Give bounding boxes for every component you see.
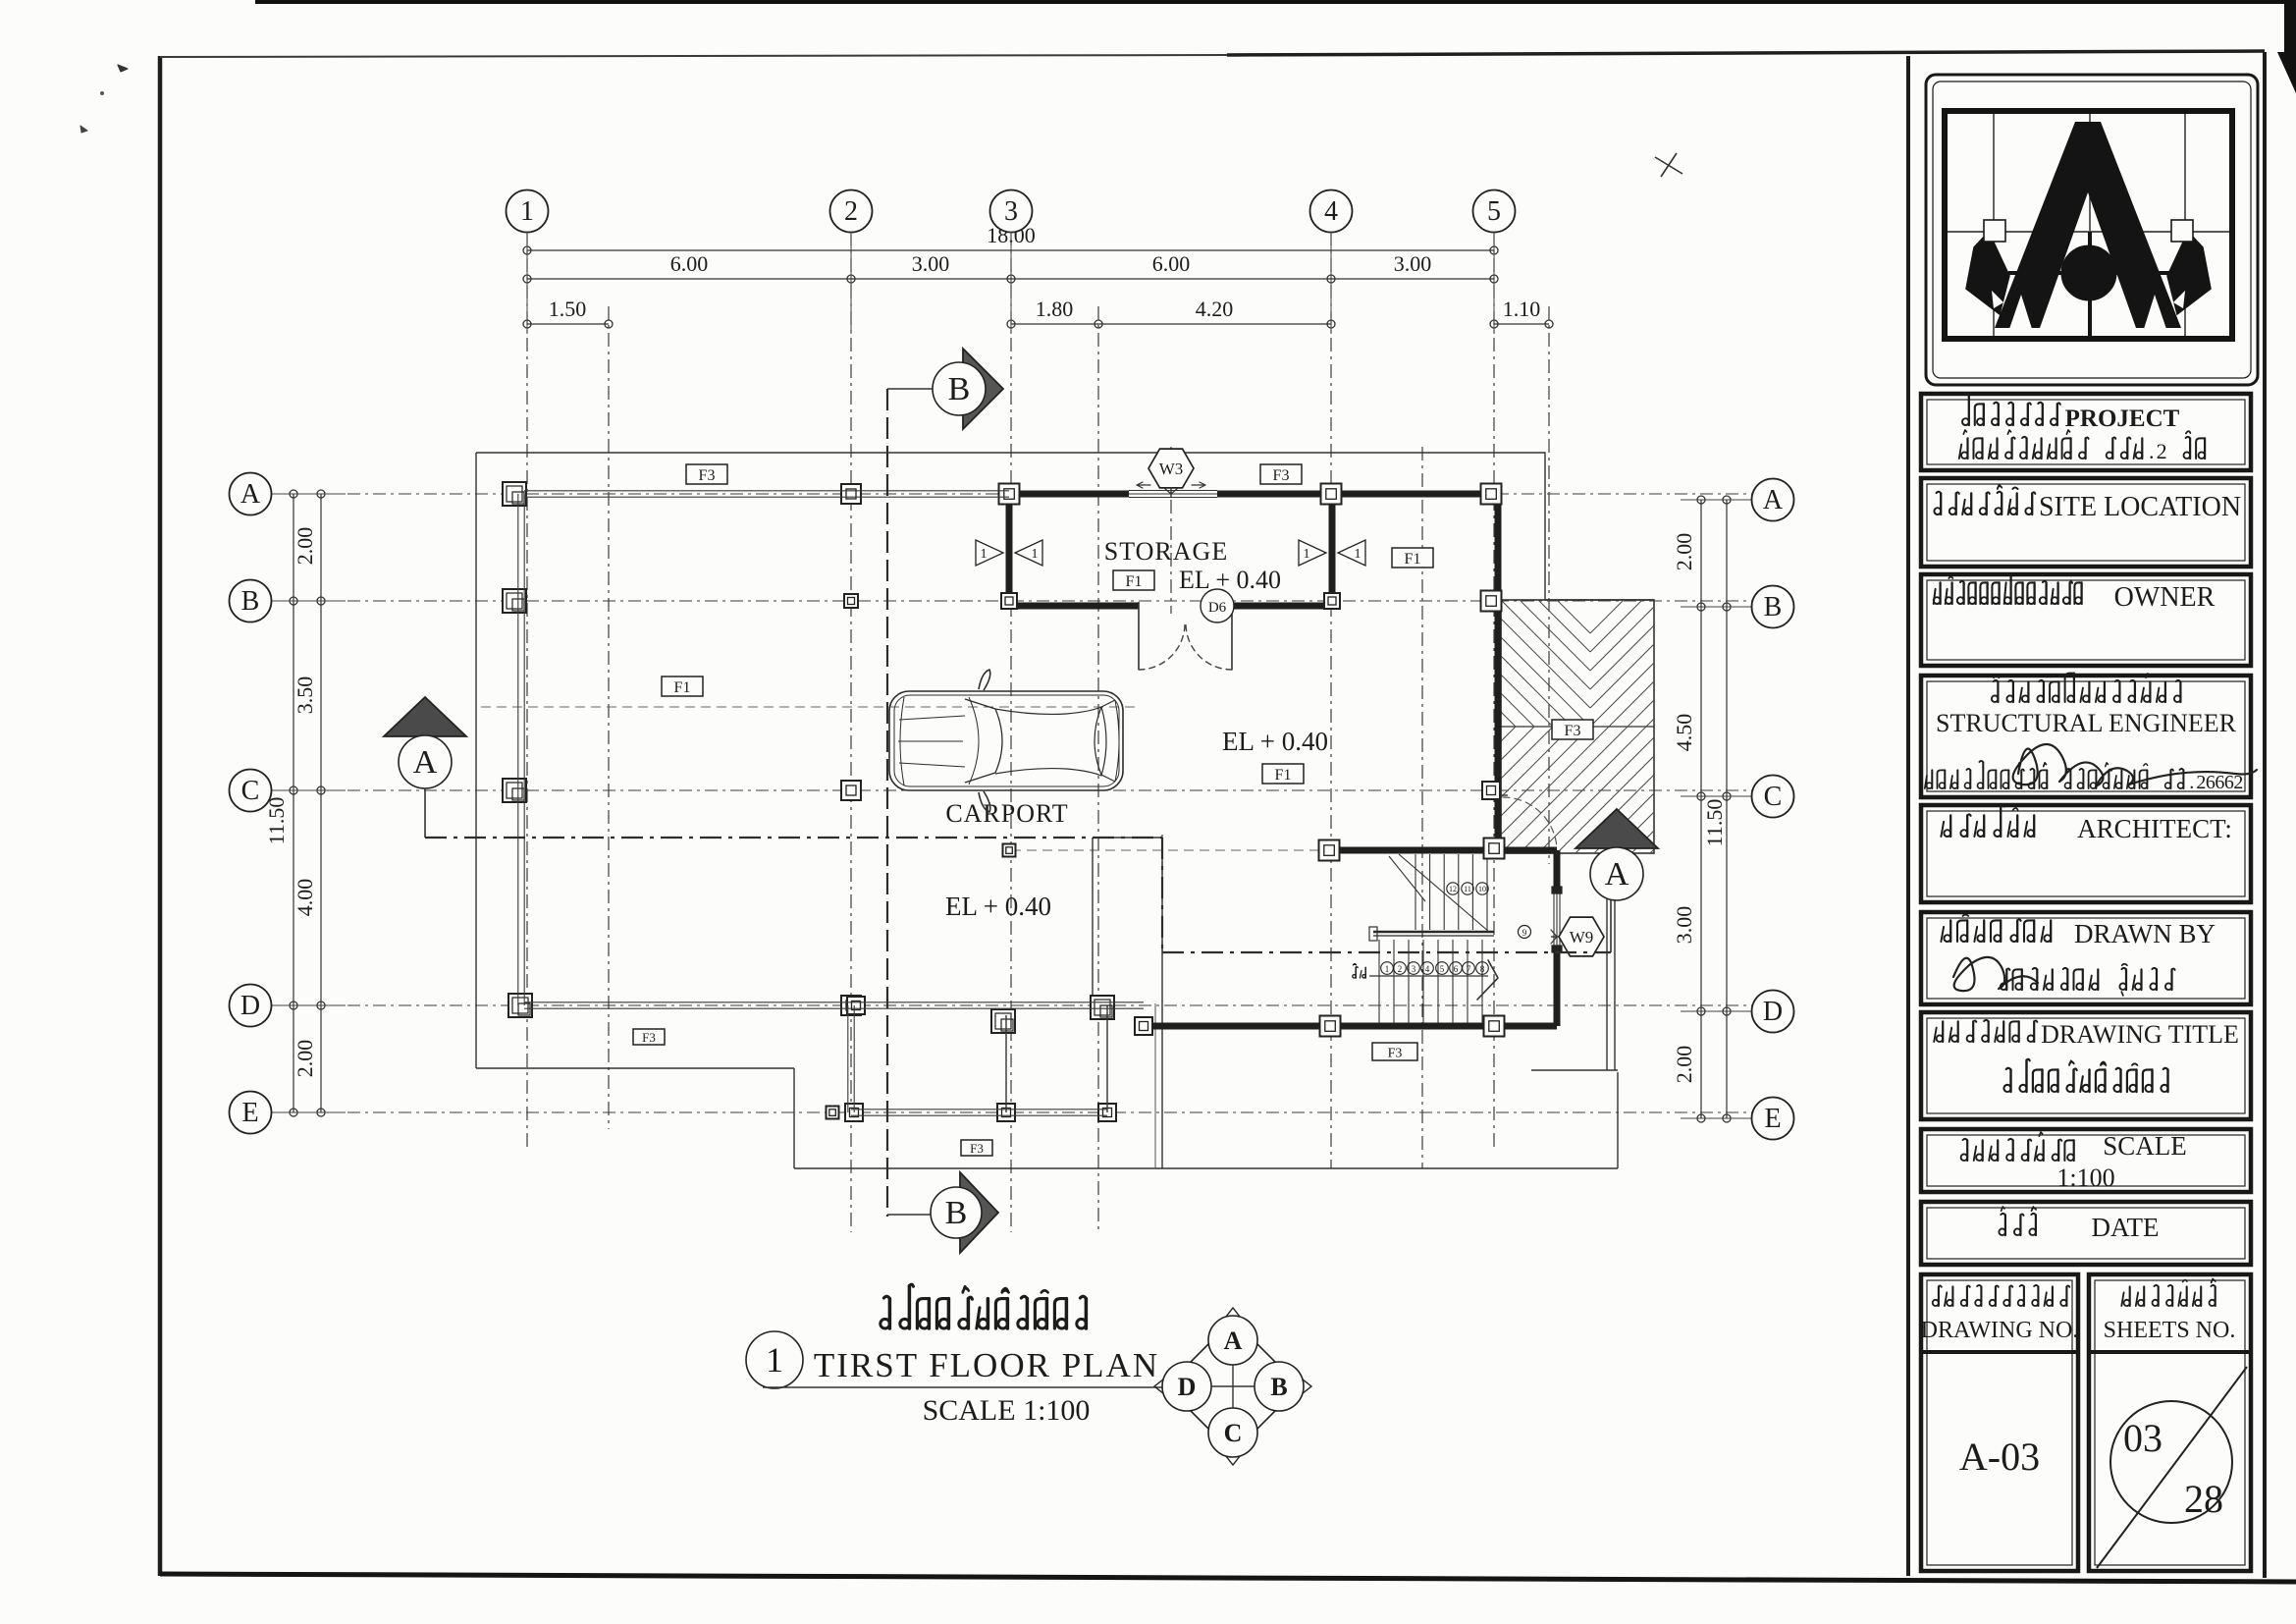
svg-text:E: E — [241, 1098, 258, 1128]
svg-text:D6: D6 — [1208, 600, 1227, 616]
svg-text:SITE LOCATION: SITE LOCATION — [2039, 492, 2241, 522]
svg-text:6: 6 — [2224, 772, 2234, 793]
svg-text:2: 2 — [1398, 964, 1403, 974]
svg-text:5: 5 — [1440, 964, 1445, 974]
svg-text:B: B — [945, 1195, 968, 1231]
svg-text:2: 2 — [844, 196, 858, 227]
svg-text:B: B — [948, 371, 971, 407]
svg-text:D: D — [1763, 997, 1783, 1027]
svg-text:STRUCTURAL ENGINEER: STRUCTURAL ENGINEER — [1936, 709, 2237, 737]
svg-text:A: A — [413, 744, 438, 781]
svg-text:F1: F1 — [674, 679, 691, 696]
svg-text:3.50: 3.50 — [293, 677, 317, 715]
svg-text:DRAWING NO.: DRAWING NO. — [1921, 1318, 2079, 1343]
svg-text:A: A — [1224, 1326, 1243, 1355]
svg-text:D: D — [240, 991, 260, 1021]
svg-text:4.20: 4.20 — [1196, 297, 1234, 321]
svg-text:1: 1 — [766, 1340, 783, 1380]
svg-text:OWNER: OWNER — [2114, 582, 2216, 613]
svg-text:4.50: 4.50 — [1672, 714, 1696, 752]
svg-text:SHEETS NO.: SHEETS NO. — [2104, 1318, 2236, 1343]
svg-text:2.00: 2.00 — [1672, 533, 1696, 571]
svg-text:EL + 0.40: EL + 0.40 — [1222, 727, 1328, 756]
svg-text:2: 2 — [2157, 439, 2167, 463]
svg-text:4: 4 — [1425, 964, 1430, 974]
svg-text:12: 12 — [1449, 885, 1457, 893]
svg-text:EL + 0.40: EL + 0.40 — [1179, 566, 1281, 594]
svg-text:3.00: 3.00 — [1394, 251, 1432, 276]
svg-text:C: C — [1764, 782, 1783, 812]
svg-text:.: . — [2189, 772, 2194, 793]
svg-text:A: A — [1763, 485, 1784, 515]
svg-text:1: 1 — [1304, 547, 1310, 562]
svg-text:2.00: 2.00 — [293, 1040, 317, 1078]
svg-text:1:100: 1:100 — [2056, 1164, 2114, 1192]
svg-text:3: 3 — [1004, 196, 1018, 227]
svg-text:1.50: 1.50 — [549, 297, 587, 321]
svg-text:2: 2 — [2233, 772, 2243, 793]
svg-text:10: 10 — [1478, 885, 1486, 893]
svg-text:6: 6 — [1454, 964, 1459, 974]
svg-text:1: 1 — [1385, 964, 1390, 974]
svg-text:3.00: 3.00 — [912, 251, 950, 276]
svg-text:1: 1 — [1032, 547, 1039, 562]
svg-text:W9: W9 — [1570, 928, 1594, 947]
svg-text:A: A — [1605, 856, 1629, 893]
svg-text:F1: F1 — [1126, 573, 1143, 590]
svg-text:SCALE 1:100: SCALE 1:100 — [923, 1394, 1091, 1427]
svg-text:6: 6 — [2215, 772, 2224, 793]
svg-text:03: 03 — [2123, 1416, 2163, 1460]
svg-text:11: 11 — [1464, 885, 1471, 893]
svg-text:SCALE: SCALE — [2103, 1131, 2187, 1161]
svg-text:F3: F3 — [1565, 723, 1581, 739]
svg-text:DRAWN BY: DRAWN BY — [2074, 919, 2216, 948]
svg-text:4.00: 4.00 — [293, 879, 317, 917]
svg-text:2.00: 2.00 — [293, 527, 317, 566]
svg-text:ARCHITECT:: ARCHITECT: — [2077, 814, 2232, 843]
svg-text:STORAGE: STORAGE — [1104, 537, 1228, 566]
svg-text:PROJECT: PROJECT — [2065, 406, 2180, 432]
svg-text:C: C — [1224, 1419, 1243, 1447]
svg-text:A-03: A-03 — [1959, 1435, 2040, 1479]
svg-text:A: A — [240, 479, 261, 510]
svg-text:11.50: 11.50 — [1702, 799, 1727, 847]
svg-text:28: 28 — [2184, 1477, 2223, 1521]
svg-text:B: B — [241, 586, 260, 617]
svg-text:B: B — [1764, 592, 1783, 623]
svg-text:11.50: 11.50 — [264, 797, 289, 845]
svg-text:8: 8 — [1480, 964, 1485, 974]
svg-text:1.80: 1.80 — [1036, 297, 1074, 321]
svg-text:DATE: DATE — [2092, 1213, 2160, 1242]
svg-text:F3: F3 — [1388, 1046, 1403, 1060]
svg-text:.: . — [2149, 439, 2155, 463]
svg-text:DRAWING TITLE: DRAWING TITLE — [2041, 1020, 2239, 1049]
svg-text:EL + 0.40: EL + 0.40 — [945, 892, 1051, 921]
svg-text:9: 9 — [1522, 928, 1527, 938]
svg-text:4: 4 — [1324, 196, 1338, 227]
svg-text:F1: F1 — [1275, 767, 1292, 784]
svg-text:CARPORT: CARPORT — [945, 799, 1068, 828]
svg-text:6: 6 — [2206, 772, 2216, 793]
svg-text:1.10: 1.10 — [1503, 297, 1541, 321]
svg-text:F3: F3 — [1273, 467, 1290, 484]
svg-text:B: B — [1270, 1373, 1287, 1401]
svg-text:5: 5 — [1487, 196, 1501, 227]
svg-text:C: C — [241, 776, 260, 806]
svg-text:W3: W3 — [1159, 460, 1184, 478]
svg-text:D: D — [1178, 1373, 1197, 1401]
svg-text:F3: F3 — [699, 467, 716, 484]
svg-text:6.00: 6.00 — [1152, 251, 1191, 276]
svg-text:1: 1 — [981, 547, 988, 562]
svg-text:3.00: 3.00 — [1672, 906, 1696, 945]
svg-text:3: 3 — [1412, 964, 1416, 974]
svg-text:F3: F3 — [970, 1141, 984, 1156]
svg-text:6.00: 6.00 — [670, 251, 709, 276]
svg-text:F3: F3 — [642, 1030, 656, 1045]
svg-text:2: 2 — [2196, 772, 2206, 793]
svg-text:F1: F1 — [1405, 551, 1421, 568]
svg-text:2.00: 2.00 — [1672, 1046, 1696, 1084]
svg-text:7: 7 — [1467, 964, 1471, 974]
svg-text:1: 1 — [1355, 547, 1362, 562]
svg-text:1: 1 — [520, 196, 534, 227]
svg-text:TIRST FLOOR PLAN: TIRST FLOOR PLAN — [814, 1346, 1159, 1384]
svg-text:E: E — [1764, 1104, 1781, 1134]
